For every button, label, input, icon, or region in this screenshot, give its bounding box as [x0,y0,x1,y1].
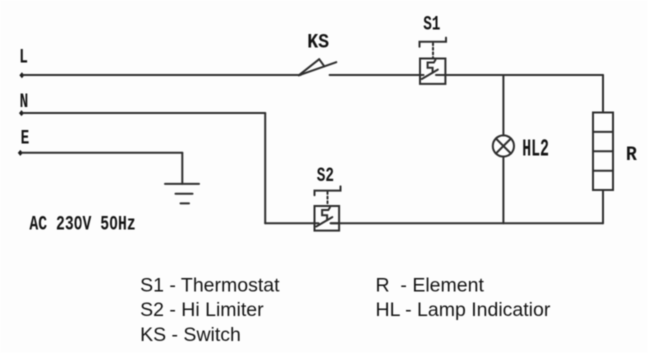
thermostat S1 contact blade [422,70,438,79]
wire lamp branch upper [502,75,504,135]
ground bar middle [176,193,193,195]
wire N vertical drop [264,113,266,223]
wire right vertical upper [602,75,604,113]
thermostat S1 right stub [436,74,445,76]
svg-text:S2 - Hi Limiter: S2 - Hi Limiter [140,299,264,321]
wire L right of KS [330,74,424,76]
node E terminal [18,150,23,156]
svg-text:S1 - Thermostat: S1 - Thermostat [140,275,280,297]
element R box [593,113,613,191]
switch KS blade upper edge [299,59,319,75]
hi-limiter S2 box [315,206,340,231]
wire bottom left segment [265,222,318,224]
element R divider 2 [593,150,613,152]
svg-text:KS: KS [307,31,329,54]
thermostat S1 dotted link [432,43,434,57]
svg-text:L: L [19,46,28,69]
lamp HL2 cross stroke 2 [496,139,511,154]
wire L left segment [23,74,301,76]
node L terminal [19,72,24,78]
hi-limiter S2 contact blade [316,217,332,226]
thermostat S1 actuator bar [420,38,447,47]
svg-text:AC 230V 50Hz: AC 230V 50Hz [29,213,135,236]
svg-text:KS - Switch: KS - Switch [140,324,241,346]
hi-limiter S2 right stub [331,222,340,224]
hi-limiter S2 dotted link [327,192,329,205]
wire E vertical drop [181,153,183,184]
thermostat S1 box [420,59,445,84]
ground bar top [165,183,199,185]
element R divider 1 [593,131,613,133]
wire lamp branch lower [502,157,504,224]
svg-text:HL - Lamp Indicatior: HL - Lamp Indicatior [376,299,551,321]
thermostat S1 thermal symbol [428,60,436,73]
hi-limiter S2 thermal symbol [322,208,330,221]
switch KS blade lower edge [299,62,337,75]
svg-text:E: E [21,127,30,150]
zero counter patch 1 [77,221,80,225]
svg-text:S1: S1 [423,13,440,36]
svg-text:R - Element: R - Element [376,275,485,297]
svg-text:HL2: HL2 [522,135,549,163]
element R divider 3 [593,170,613,172]
lamp HL2 circle [493,135,514,156]
hi-limiter S2 actuator bar [315,186,341,195]
node N terminal [19,110,24,116]
ground bar bottom [181,202,190,204]
lamp HL2 cross stroke 1 [496,139,511,154]
zero counter patch 2 [112,221,115,225]
wire S1 to corner [445,74,603,76]
svg-text:S2: S2 [317,165,334,188]
wire bottom right segment [331,222,603,224]
switch KS blade crossbar [319,59,324,66]
wire N horizontal [23,112,265,114]
wire E horizontal [22,152,182,154]
wire right vertical lower [602,190,604,223]
svg-text:R: R [626,143,637,166]
svg-text:N: N [20,91,29,114]
